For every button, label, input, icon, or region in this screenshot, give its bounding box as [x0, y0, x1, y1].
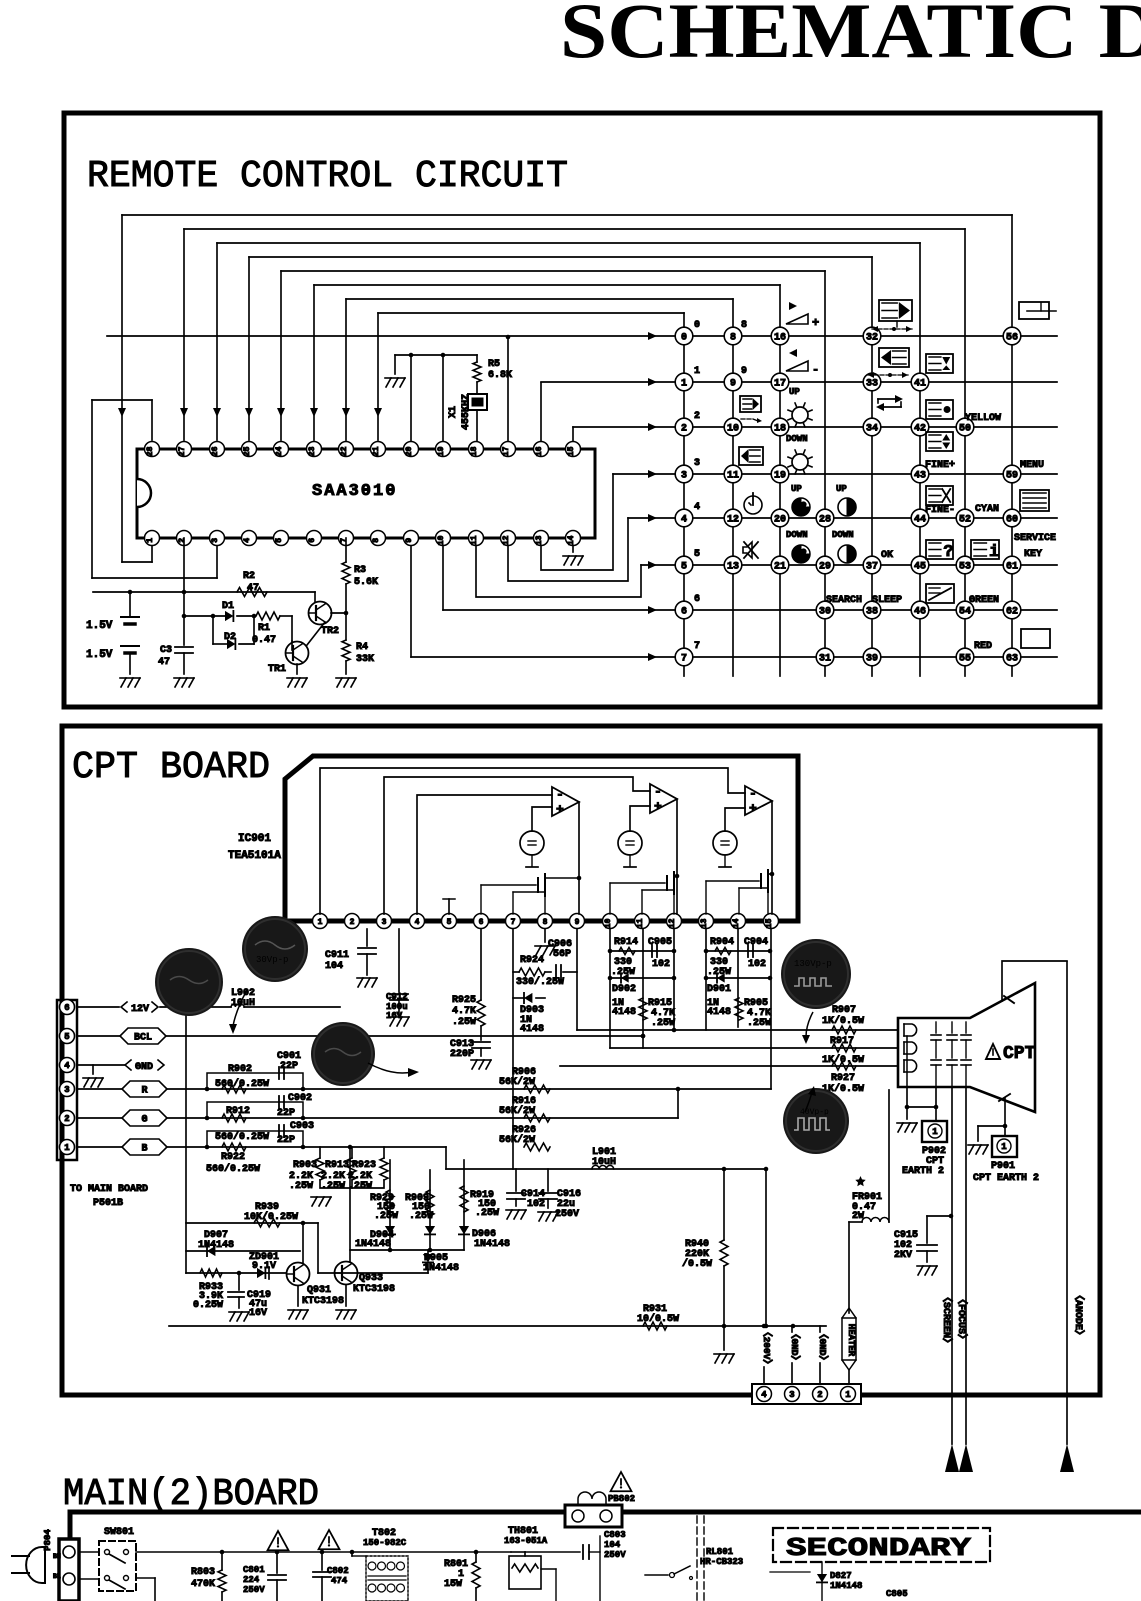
- svg-text:SW801: SW801: [104, 1527, 134, 1538]
- svg-text:EARTH 2: EARTH 2: [902, 1166, 944, 1177]
- svg-text:4: 4: [243, 538, 252, 543]
- svg-text:UP: UP: [791, 484, 802, 494]
- svg-text:3: 3: [382, 918, 387, 927]
- svg-text:250V: 250V: [604, 1550, 626, 1560]
- svg-text:20: 20: [405, 446, 414, 456]
- svg-text:7: 7: [694, 641, 700, 652]
- svg-text:56P: 56P: [553, 949, 571, 960]
- svg-text:32: 32: [866, 333, 878, 344]
- svg-text:43: 43: [914, 471, 926, 482]
- svg-text:26: 26: [211, 446, 220, 456]
- svg-text:17: 17: [774, 379, 786, 390]
- svg-text:.25W: .25W: [374, 1211, 398, 1222]
- svg-text:1K/0.5W: 1K/0.5W: [822, 1015, 864, 1027]
- svg-text:2: 2: [681, 424, 687, 435]
- svg-text:28: 28: [146, 446, 155, 456]
- svg-text:MENU: MENU: [1020, 460, 1044, 471]
- svg-text:R2: R2: [243, 571, 255, 582]
- svg-text:GND: GND: [135, 1062, 153, 1073]
- svg-text:11: 11: [636, 918, 645, 928]
- svg-text:53: 53: [959, 562, 971, 573]
- svg-text:DOWN: DOWN: [786, 530, 808, 540]
- svg-text:21: 21: [372, 446, 381, 456]
- svg-text:7: 7: [340, 538, 349, 543]
- svg-text:R801: R801: [444, 1559, 468, 1570]
- svg-text:2KV: 2KV: [894, 1250, 912, 1261]
- svg-text:52: 52: [959, 515, 971, 526]
- svg-text:4: 4: [415, 918, 420, 927]
- svg-text:PB802: PB802: [608, 1494, 635, 1504]
- svg-text:18: 18: [470, 446, 479, 456]
- svg-text:474: 474: [331, 1576, 348, 1586]
- svg-text:C3: C3: [160, 645, 172, 656]
- svg-text:102: 102: [527, 1199, 545, 1210]
- svg-text:REMOTE CONTROL CIRCUIT: REMOTE CONTROL CIRCUIT: [87, 155, 568, 198]
- svg-text:R925: R925: [452, 995, 476, 1006]
- svg-text:+: +: [556, 802, 564, 817]
- svg-text:R922: R922: [221, 1152, 245, 1163]
- svg-text:R5: R5: [488, 359, 500, 370]
- svg-text:.25W: .25W: [321, 1181, 345, 1192]
- svg-text:1: 1: [146, 538, 155, 543]
- svg-text:163-051A: 163-051A: [504, 1536, 548, 1546]
- svg-text:16V: 16V: [249, 1308, 267, 1319]
- svg-text:7: 7: [511, 918, 516, 927]
- svg-text:SECONDARY: SECONDARY: [786, 1533, 972, 1563]
- svg-text:BL: BL: [53, 1573, 61, 1580]
- svg-text:10uH: 10uH: [231, 998, 255, 1009]
- svg-text:9: 9: [575, 918, 580, 927]
- svg-text:42: 42: [914, 424, 926, 435]
- svg-text:4148: 4148: [707, 1007, 731, 1018]
- svg-text:10/0.5W: 10/0.5W: [637, 1313, 679, 1325]
- svg-text:.25W: .25W: [747, 1018, 771, 1029]
- svg-text:8: 8: [543, 918, 548, 927]
- svg-text:〈ANODE〉: 〈ANODE〉: [1072, 1290, 1086, 1340]
- svg-text:47: 47: [158, 657, 170, 668]
- svg-text:R1: R1: [258, 623, 270, 634]
- svg-text:4: 4: [681, 515, 687, 526]
- svg-text:D1: D1: [222, 601, 234, 612]
- svg-text:16: 16: [774, 333, 786, 344]
- svg-text:102: 102: [652, 959, 670, 970]
- svg-text:C802: C802: [327, 1566, 349, 1576]
- svg-text:10: 10: [604, 918, 613, 928]
- svg-text:2: 2: [178, 538, 187, 543]
- svg-text:DOWN: DOWN: [786, 434, 808, 444]
- svg-text:1K/0.5W: 1K/0.5W: [822, 1054, 864, 1066]
- svg-text:CYAN: CYAN: [975, 504, 999, 515]
- svg-text:+: +: [654, 799, 662, 814]
- svg-text:560/0.25W: 560/0.25W: [215, 1131, 269, 1143]
- svg-text:CPT EARTH 2: CPT EARTH 2: [973, 1173, 1039, 1184]
- svg-text:1N4148: 1N4148: [198, 1240, 234, 1251]
- svg-text:X1: X1: [448, 406, 459, 418]
- svg-text:C903: C903: [290, 1121, 314, 1132]
- svg-text:3: 3: [789, 1390, 794, 1400]
- svg-text:560/0.25W: 560/0.25W: [215, 1078, 269, 1090]
- svg-text:250V: 250V: [243, 1585, 265, 1595]
- svg-text:-: -: [812, 363, 819, 377]
- svg-text:102: 102: [748, 959, 766, 970]
- svg-text:RL801: RL801: [706, 1547, 734, 1557]
- svg-text:UP: UP: [789, 387, 800, 397]
- svg-text:10: 10: [727, 424, 739, 435]
- svg-text:1.5V: 1.5V: [86, 649, 113, 661]
- svg-text:.25W: .25W: [651, 1018, 675, 1029]
- svg-text:22P: 22P: [277, 1108, 295, 1119]
- svg-text:5: 5: [275, 538, 284, 543]
- svg-text:11: 11: [727, 471, 739, 482]
- svg-text:38: 38: [866, 607, 878, 618]
- svg-text:D902: D902: [612, 984, 636, 995]
- svg-text:1: 1: [64, 1143, 70, 1153]
- svg-text:224: 224: [243, 1575, 260, 1585]
- svg-text:FINE-: FINE-: [925, 505, 955, 516]
- svg-text:104: 104: [325, 961, 343, 972]
- svg-text:SEARCH: SEARCH: [826, 595, 862, 606]
- svg-text:29: 29: [819, 562, 831, 573]
- svg-text:2: 2: [694, 411, 700, 422]
- svg-text:470K: 470K: [191, 1579, 215, 1590]
- svg-text:1: 1: [694, 366, 700, 377]
- svg-text:TEA5101A: TEA5101A: [228, 850, 281, 862]
- svg-text:60: 60: [1006, 515, 1018, 526]
- svg-text:9: 9: [741, 366, 747, 377]
- svg-text:25: 25: [243, 446, 252, 456]
- svg-text:4: 4: [64, 1061, 70, 1071]
- svg-text:Q931: Q931: [307, 1285, 331, 1296]
- svg-text:R: R: [141, 1086, 147, 1097]
- svg-text:C805: C805: [886, 1589, 908, 1599]
- svg-text:62: 62: [1006, 607, 1018, 618]
- svg-text:C905: C905: [648, 937, 672, 948]
- svg-text:R902: R902: [228, 1064, 252, 1075]
- svg-text:24: 24: [275, 446, 284, 456]
- svg-text:22P: 22P: [277, 1135, 295, 1146]
- svg-text:〈GND〉: 〈GND〉: [817, 1329, 829, 1365]
- svg-text:1N4148: 1N4148: [830, 1581, 862, 1591]
- svg-text:?: ?: [943, 543, 953, 562]
- svg-text:4148: 4148: [612, 1007, 636, 1018]
- svg-text:P901: P901: [991, 1161, 1015, 1172]
- svg-text:D827: D827: [830, 1571, 852, 1581]
- svg-text:6: 6: [64, 1003, 69, 1013]
- svg-text:HEATER: HEATER: [846, 1324, 856, 1357]
- svg-text:28: 28: [819, 515, 831, 526]
- svg-text:104: 104: [604, 1540, 621, 1550]
- svg-text:3: 3: [64, 1085, 69, 1095]
- svg-text:R904: R904: [710, 937, 734, 948]
- svg-text:C911: C911: [325, 950, 349, 961]
- svg-text:P501B: P501B: [93, 1198, 123, 1209]
- svg-text:18: 18: [774, 424, 786, 435]
- svg-text:2: 2: [350, 918, 355, 927]
- svg-text:5: 5: [694, 549, 700, 560]
- svg-text:50: 50: [959, 424, 971, 435]
- svg-text:61: 61: [1006, 562, 1018, 573]
- svg-text:10uH: 10uH: [592, 1157, 616, 1168]
- svg-text:9: 9: [730, 379, 736, 390]
- svg-text:C902: C902: [288, 1093, 312, 1104]
- svg-text:TR1: TR1: [268, 664, 286, 675]
- svg-text:40Vp-p: 40Vp-p: [800, 1108, 829, 1117]
- svg-text:63: 63: [1006, 654, 1018, 665]
- svg-text:44: 44: [914, 515, 926, 526]
- svg-text:R913: R913: [325, 1160, 349, 1171]
- svg-text:R3: R3: [354, 565, 366, 576]
- svg-text:YELLOW: YELLOW: [965, 413, 1001, 424]
- svg-text:R927: R927: [831, 1073, 855, 1084]
- svg-text:5: 5: [447, 918, 452, 927]
- svg-text:SLEEP: SLEEP: [872, 595, 902, 606]
- svg-text:6: 6: [694, 594, 700, 605]
- svg-text:.25W: .25W: [611, 967, 635, 978]
- svg-text:11: 11: [470, 535, 479, 545]
- svg-text:22: 22: [340, 446, 349, 456]
- svg-text:C904: C904: [744, 937, 768, 948]
- svg-text:330/.25W: 330/.25W: [516, 976, 564, 988]
- svg-text:23: 23: [308, 446, 317, 456]
- svg-text:KTC3198: KTC3198: [353, 1284, 395, 1295]
- svg-text:6.8K: 6.8K: [488, 370, 512, 381]
- svg-text:455KHZ: 455KHZ: [461, 394, 472, 430]
- svg-text:C801: C801: [243, 1565, 265, 1575]
- svg-text:1: 1: [845, 1390, 851, 1400]
- svg-text:5: 5: [681, 562, 687, 573]
- svg-text:4: 4: [694, 502, 700, 513]
- svg-text:0.25W: 0.25W: [193, 1300, 223, 1311]
- svg-text:14: 14: [567, 535, 576, 545]
- svg-text:UP: UP: [836, 484, 847, 494]
- svg-text:SCHEMATIC D: SCHEMATIC D: [560, 0, 1141, 74]
- svg-text:13: 13: [727, 562, 739, 573]
- svg-text:2: 2: [817, 1390, 822, 1400]
- svg-text:37: 37: [866, 562, 878, 573]
- svg-text:41: 41: [914, 379, 926, 390]
- svg-text:19: 19: [437, 446, 446, 456]
- svg-text:C912: C912: [386, 992, 408, 1002]
- svg-text:1: 1: [681, 379, 687, 390]
- svg-text:12: 12: [502, 535, 511, 545]
- svg-text:-: -: [749, 786, 757, 801]
- svg-text:6: 6: [681, 607, 687, 618]
- svg-text:56K/2W: 56K/2W: [499, 1105, 535, 1117]
- svg-text:6: 6: [479, 918, 484, 927]
- svg-text:13: 13: [700, 918, 709, 928]
- svg-text:8: 8: [730, 333, 736, 344]
- svg-text:19: 19: [774, 471, 786, 482]
- svg-text:CPT BOARD: CPT BOARD: [72, 746, 270, 789]
- svg-text:Q933: Q933: [359, 1273, 383, 1284]
- svg-text:R924: R924: [520, 955, 544, 966]
- svg-text:SERVICE: SERVICE: [1014, 533, 1056, 544]
- svg-text:〈GND〉: 〈GND〉: [789, 1329, 801, 1365]
- svg-text:SAA3010: SAA3010: [312, 482, 397, 501]
- svg-text:130Vp-p: 130Vp-p: [794, 959, 832, 969]
- svg-text:0: 0: [681, 333, 687, 344]
- svg-text:8: 8: [372, 538, 381, 543]
- svg-text:22P: 22P: [280, 1061, 298, 1072]
- svg-text:16V: 16V: [386, 1011, 403, 1021]
- svg-text:5: 5: [64, 1032, 69, 1042]
- svg-text:BN: BN: [53, 1553, 61, 1560]
- svg-text:〈FOCUS〉: 〈FOCUS〉: [955, 1294, 969, 1344]
- svg-text:DOWN: DOWN: [832, 530, 854, 540]
- svg-text:TO MAIN BOARD: TO MAIN BOARD: [70, 1184, 148, 1195]
- svg-text:45: 45: [914, 562, 926, 573]
- svg-text:OK: OK: [881, 550, 893, 561]
- svg-text:R917: R917: [830, 1036, 854, 1047]
- svg-text:4: 4: [761, 1390, 767, 1400]
- svg-text:54: 54: [959, 607, 971, 618]
- svg-text:D2: D2: [224, 632, 236, 643]
- svg-text:55: 55: [959, 654, 971, 665]
- svg-text:1.5V: 1.5V: [86, 620, 113, 632]
- svg-text:FINE+: FINE+: [925, 460, 955, 471]
- svg-text:C803: C803: [604, 1530, 626, 1540]
- svg-text:〈200V〉: 〈200V〉: [761, 1327, 773, 1369]
- svg-text:TR2: TR2: [321, 626, 339, 637]
- svg-text:6: 6: [308, 538, 317, 543]
- svg-text:.25W: .25W: [707, 967, 731, 978]
- svg-text:1N4148: 1N4148: [474, 1239, 510, 1250]
- svg-text:4.7K: 4.7K: [452, 1006, 476, 1017]
- svg-text:10K/0.25W: 10K/0.25W: [244, 1211, 298, 1223]
- svg-text:13: 13: [535, 535, 544, 545]
- svg-text:KEY: KEY: [1024, 549, 1042, 560]
- svg-text:/0.5W: /0.5W: [682, 1258, 712, 1270]
- svg-text:.25W: .25W: [409, 1211, 433, 1222]
- svg-text:12: 12: [727, 515, 739, 526]
- svg-text:.25W: .25W: [452, 1017, 476, 1028]
- svg-text:R907: R907: [832, 1005, 856, 1016]
- svg-text:+: +: [749, 801, 757, 816]
- svg-text:220P: 220P: [450, 1049, 474, 1060]
- svg-text:46: 46: [914, 607, 926, 618]
- svg-text:3: 3: [694, 458, 700, 469]
- svg-text:56K/2W: 56K/2W: [499, 1134, 535, 1146]
- svg-text:CPT: CPT: [1003, 1044, 1036, 1064]
- svg-text:1N4148: 1N4148: [355, 1239, 391, 1250]
- svg-text:59: 59: [1006, 471, 1018, 482]
- svg-text:BCL: BCL: [134, 1033, 152, 1044]
- svg-text:R803: R803: [191, 1567, 215, 1578]
- svg-text:3: 3: [681, 471, 687, 482]
- svg-text:1: 1: [318, 918, 323, 927]
- svg-text:33K: 33K: [356, 654, 374, 665]
- svg-text:3: 3: [211, 538, 220, 543]
- svg-text:17: 17: [502, 446, 511, 456]
- svg-text:250V: 250V: [555, 1209, 579, 1220]
- svg-text:R923: R923: [352, 1160, 376, 1171]
- svg-text:〈SCREEN〉: 〈SCREEN〉: [940, 1292, 954, 1348]
- svg-text:B: B: [141, 1144, 147, 1155]
- svg-text:14: 14: [732, 918, 741, 928]
- svg-text:30: 30: [819, 607, 831, 618]
- svg-text:30Vp-p: 30Vp-p: [256, 955, 288, 965]
- svg-text:47: 47: [247, 583, 259, 594]
- svg-text:0.47: 0.47: [252, 635, 276, 646]
- svg-text:15: 15: [567, 446, 576, 456]
- svg-text:0: 0: [694, 320, 700, 331]
- svg-text:27: 27: [178, 446, 187, 456]
- svg-text:1: 1: [932, 1127, 938, 1137]
- svg-text:-: -: [556, 787, 564, 802]
- svg-text:5.6K: 5.6K: [354, 577, 378, 588]
- svg-text:15W: 15W: [444, 1579, 462, 1590]
- svg-text:i: i: [989, 543, 999, 562]
- svg-text:R912: R912: [226, 1106, 250, 1117]
- svg-text:+: +: [812, 316, 819, 330]
- svg-text:20: 20: [774, 515, 786, 526]
- svg-text:R914: R914: [614, 937, 638, 948]
- svg-text:560/0.25W: 560/0.25W: [206, 1163, 260, 1175]
- svg-text:34: 34: [866, 424, 878, 435]
- svg-text:RED: RED: [974, 641, 992, 652]
- svg-text:GREEN: GREEN: [969, 595, 999, 606]
- svg-text:G: G: [141, 1115, 147, 1126]
- svg-text:21: 21: [774, 562, 786, 573]
- svg-text:12: 12: [668, 918, 677, 928]
- svg-text:.25W: .25W: [289, 1181, 313, 1192]
- svg-text:9.1V: 9.1V: [252, 1261, 276, 1272]
- svg-text:150-982C: 150-982C: [363, 1538, 407, 1548]
- svg-text:1: 1: [1001, 1142, 1007, 1152]
- svg-text:56K/2W: 56K/2W: [499, 1076, 535, 1088]
- svg-text:10: 10: [437, 535, 446, 545]
- svg-text:D901: D901: [707, 984, 731, 995]
- svg-text:56: 56: [1006, 333, 1018, 344]
- svg-text:R903: R903: [293, 1160, 317, 1171]
- svg-text:9: 9: [405, 538, 414, 543]
- svg-text:8: 8: [741, 320, 747, 331]
- svg-text:15: 15: [765, 918, 774, 928]
- svg-text:-: -: [654, 784, 662, 799]
- svg-text:33: 33: [866, 379, 878, 390]
- svg-text:7: 7: [681, 654, 687, 665]
- svg-text:KTC3198: KTC3198: [302, 1296, 344, 1307]
- svg-text:39: 39: [866, 654, 878, 665]
- svg-text:4148: 4148: [520, 1024, 544, 1035]
- svg-text:IC901: IC901: [238, 833, 271, 845]
- svg-text:16: 16: [535, 446, 544, 456]
- svg-text:R4: R4: [356, 642, 368, 653]
- svg-text:31: 31: [819, 654, 831, 665]
- svg-text:HR-CB323: HR-CB323: [700, 1557, 743, 1567]
- svg-text:.25W: .25W: [475, 1208, 499, 1219]
- svg-text:12V: 12V: [131, 1004, 149, 1015]
- svg-text:2: 2: [64, 1114, 69, 1124]
